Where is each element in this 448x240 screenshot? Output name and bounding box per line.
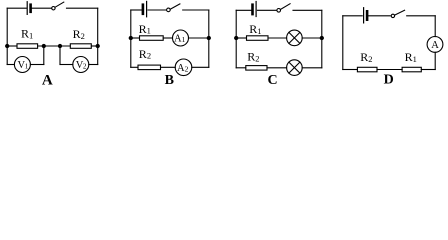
battery cell D: short thick plate (366, 11, 369, 19)
lamp L2 cross stroke 1 (289, 62, 300, 73)
wire: C middle row left (236, 37, 246, 39)
wire: B bottom, A2 to right (192, 66, 209, 68)
node: C middle right junction (320, 36, 323, 39)
switch S blade (B) (170, 4, 180, 9)
node: C middle left junction (235, 36, 238, 39)
wire: A top, battery to switch (32, 7, 52, 9)
battery cell B: long thin plate (146, 1, 148, 16)
node: A junction left of R2 (58, 44, 61, 47)
svg-text:C: C (268, 73, 278, 85)
wire: A top right segment (67, 7, 98, 9)
wire: A middle row between R1 and R2 (38, 45, 71, 47)
resistor R2 (B) (138, 65, 161, 70)
wire: C top right segment (293, 9, 322, 11)
node: B middle right junction (207, 36, 210, 39)
switch S blade (D) (395, 10, 405, 15)
wire: C top left segment (236, 9, 251, 11)
lamp L2 cross stroke 2 (289, 62, 300, 73)
lamp L2 circle (C) (287, 60, 303, 76)
wire: C top, battery to switch (257, 9, 276, 11)
resistor R1 (B) (140, 36, 164, 41)
resistor R1 (C) (247, 36, 269, 41)
ammeter A2 circle (175, 59, 192, 76)
wire: V2 left stub vertical (59, 46, 61, 65)
lamp L1 cross stroke 2 (289, 32, 300, 43)
voltmeter V1 circle (14, 57, 30, 73)
wire: V1 row left (7, 64, 14, 66)
ammeter A1 circle (173, 30, 189, 46)
wire: D top, battery to switch (369, 15, 391, 17)
resistor R2 (D) (357, 67, 377, 72)
wire: A top left segment (7, 7, 26, 9)
wire: C middle, lamp to right (302, 37, 322, 39)
battery cell A: long thin plate (26, 2, 28, 15)
svg-text:D: D (384, 72, 394, 85)
wire: D right vertical upper (434, 16, 436, 37)
switch S pivot circle (B) (167, 8, 171, 12)
wire: stub to V2 (60, 64, 73, 66)
wire: A middle row left (7, 45, 17, 47)
wire: D bottom, R2 to R1 (377, 69, 402, 71)
switch S blade (C) (280, 4, 290, 10)
battery cell C: short thick plate (251, 5, 254, 14)
switch S blade (A) (55, 2, 64, 7)
node: B middle left junction (129, 36, 132, 39)
wire: B middle, A1 to right (189, 37, 209, 39)
switch S pivot circle (C) (277, 9, 281, 13)
resistor R1 (A) (17, 44, 38, 49)
wire: D bottom right (421, 69, 435, 71)
switch S pivot circle (D) (391, 14, 394, 17)
wire: B middle, R1 to A1 (163, 37, 172, 39)
wire: D top left segment (343, 15, 362, 17)
wire: B top left segment (131, 9, 142, 11)
wire: C right vertical (321, 10, 323, 68)
switch S pivot circle (A) (52, 7, 55, 10)
wire: D bottom left (343, 69, 358, 71)
battery cell C: long thin plate (255, 2, 257, 17)
wire: B bottom left (131, 66, 138, 68)
node: A right junction (96, 44, 99, 47)
wire: V1 right stub vertical (43, 46, 45, 65)
node: A left junction (6, 44, 9, 47)
lamp L1 cross stroke 1 (289, 32, 300, 43)
node: A junction right of R1 (42, 44, 45, 47)
wire: B bottom, R2 to A2 (161, 66, 176, 68)
svg-text:A: A (42, 72, 53, 85)
ammeter A circle (D) (427, 37, 443, 53)
wire: A middle row right (91, 45, 97, 47)
resistor R2 (C) (246, 66, 267, 71)
battery cell D: long thin plate (363, 8, 365, 23)
wire: V2 row right (89, 64, 98, 66)
wire: V1 to stub (30, 64, 43, 66)
svg-text:A1: A1 (174, 34, 186, 45)
voltmeter V2 circle (73, 57, 89, 73)
resistor R2 (A) (70, 44, 91, 49)
wire: B left vertical (130, 10, 132, 67)
wire: C left vertical (235, 10, 237, 68)
wire: D top right segment (407, 15, 436, 17)
wire: C bottom, lamp to right (302, 67, 322, 69)
wire: A right vertical (97, 8, 99, 64)
svg-text:A2: A2 (177, 63, 189, 74)
svg-text:A: A (431, 40, 439, 51)
wire: B top right segment (183, 9, 209, 11)
wire: D left vertical (342, 16, 344, 70)
svg-text:2: 2 (83, 63, 87, 71)
wire: C bottom left (236, 67, 246, 69)
wire: A left vertical (6, 8, 8, 64)
wire: D right vertical lower (434, 52, 436, 69)
wire: C bottom, R2 to lamp (267, 67, 287, 69)
svg-text:B: B (165, 73, 174, 85)
battery cell A: short thick plate (29, 5, 32, 12)
svg-text:1: 1 (25, 63, 29, 71)
wire: B top, battery to switch (148, 9, 166, 11)
wire: C middle, R1 to lamp (268, 37, 287, 39)
battery cell B: short thick plate (142, 5, 145, 14)
wire: B middle row left (131, 37, 140, 39)
resistor R1 (D) (402, 67, 421, 72)
lamp L1 circle (C) (287, 30, 303, 46)
wire: B right vertical (208, 10, 210, 67)
